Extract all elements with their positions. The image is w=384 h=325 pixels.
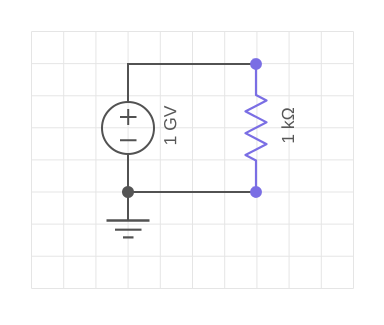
- junction node: [122, 186, 134, 198]
- wire: junction to ground: [127, 192, 129, 220]
- ground: [107, 221, 150, 238]
- label 1 kOhm: [281, 108, 294, 142]
- node A: [250, 58, 262, 70]
- wire: source bottom to junction: [127, 153, 129, 192]
- wire top: source top to node A: [128, 64, 256, 103]
- node B: [250, 186, 262, 198]
- label 1 GV: [164, 106, 176, 144]
- wire bottom: junction to node B: [128, 191, 256, 193]
- voltage source V1: [102, 102, 154, 154]
- resistor R1: [246, 64, 267, 192]
